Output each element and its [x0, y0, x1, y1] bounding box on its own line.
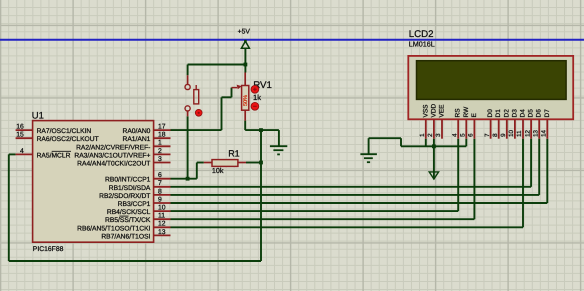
svg-text:RB3/CCP1: RB3/CCP1	[118, 201, 151, 208]
svg-text:RB6/AN5/T1OSO/T1CKI: RB6/AN5/T1OSO/T1CKI	[77, 225, 150, 232]
svg-text:D7: D7	[544, 109, 551, 118]
svg-text:RA7/OSC1/CLKIN: RA7/OSC1/CLKIN	[37, 128, 92, 135]
svg-text:3: 3	[435, 133, 442, 137]
svg-text:50%: 50%	[243, 95, 249, 106]
svg-text:RB0/INT/CCP1: RB0/INT/CCP1	[105, 177, 151, 184]
svg-text:4: 4	[451, 133, 458, 137]
svg-text:18: 18	[158, 132, 166, 139]
svg-text:17: 17	[158, 124, 166, 131]
svg-text:10k: 10k	[212, 166, 224, 175]
svg-text:7: 7	[158, 180, 162, 187]
svg-text:+5V: +5V	[238, 28, 251, 35]
svg-text:RB4/SCK/SCL: RB4/SCK/SCL	[107, 209, 151, 216]
svg-text:RA3/AN3/C1OUT/VREF+: RA3/AN3/C1OUT/VREF+	[74, 152, 150, 159]
svg-text:13: 13	[158, 229, 166, 236]
svg-text:10: 10	[158, 205, 166, 212]
svg-text:8: 8	[158, 188, 162, 195]
svg-text:11: 11	[158, 213, 165, 220]
svg-text:PIC16F88: PIC16F88	[33, 246, 64, 253]
svg-text:RA4/AN4/T0CKI/C2OUT: RA4/AN4/T0CKI/C2OUT	[77, 161, 150, 168]
svg-text:D5: D5	[528, 109, 535, 118]
svg-text:RA1/AN1: RA1/AN1	[123, 136, 151, 143]
svg-text:10: 10	[508, 129, 515, 136]
svg-text:RA2/AN2/CVREF/VREF-: RA2/AN2/CVREF/VREF-	[76, 144, 150, 151]
svg-text:RA0/AN0: RA0/AN0	[123, 128, 151, 135]
svg-text:D1: D1	[495, 109, 502, 118]
svg-text:7: 7	[484, 133, 491, 137]
svg-text:2: 2	[158, 148, 162, 155]
svg-text:6: 6	[468, 133, 475, 137]
svg-text:16: 16	[16, 124, 24, 131]
svg-text:4: 4	[20, 148, 24, 155]
svg-text:13: 13	[532, 129, 539, 136]
svg-text:D2: D2	[503, 109, 510, 118]
svg-text:9: 9	[500, 133, 507, 137]
svg-text:12: 12	[158, 221, 166, 228]
svg-text:RA6/OSC2/CLKOUT: RA6/OSC2/CLKOUT	[37, 136, 99, 143]
svg-text:5: 5	[460, 133, 467, 137]
svg-text:RB2/SDO/RX/DT: RB2/SDO/RX/DT	[99, 193, 150, 200]
svg-text:LCD2: LCD2	[409, 29, 434, 40]
svg-text:D6: D6	[536, 109, 543, 118]
svg-text:11: 11	[516, 130, 523, 137]
svg-text:1: 1	[158, 140, 162, 147]
svg-text:VSS: VSS	[422, 104, 429, 118]
svg-text:U1: U1	[32, 111, 44, 122]
svg-text:3: 3	[158, 156, 162, 163]
svg-text:RB1/SDI/SDA: RB1/SDI/SDA	[109, 185, 151, 192]
svg-text:15: 15	[16, 132, 24, 139]
svg-text:RS: RS	[455, 108, 462, 118]
svg-text:VDD: VDD	[430, 103, 437, 117]
svg-text:RW: RW	[463, 106, 470, 118]
svg-text:14: 14	[541, 129, 548, 136]
svg-text:R1: R1	[228, 148, 240, 158]
svg-text:D4: D4	[520, 109, 527, 118]
svg-text:2: 2	[427, 133, 434, 137]
svg-text:VEE: VEE	[439, 104, 446, 118]
svg-text:LM016L: LM016L	[409, 39, 435, 48]
svg-text:6: 6	[158, 172, 162, 179]
svg-text:12: 12	[524, 129, 531, 136]
svg-text:9: 9	[158, 196, 162, 203]
svg-text:RB7/AN6/T1OSI: RB7/AN6/T1OSI	[101, 233, 150, 240]
svg-text:1k: 1k	[253, 93, 261, 102]
svg-text:1: 1	[419, 133, 426, 137]
svg-text:E: E	[471, 113, 478, 118]
svg-text:RA5/MCLR: RA5/MCLR	[37, 152, 71, 159]
svg-text:D3: D3	[511, 109, 518, 118]
svg-text:8: 8	[492, 133, 499, 137]
svg-text:RB5/SS/TX/CK: RB5/SS/TX/CK	[105, 217, 151, 224]
svg-text:D0: D0	[487, 109, 494, 118]
